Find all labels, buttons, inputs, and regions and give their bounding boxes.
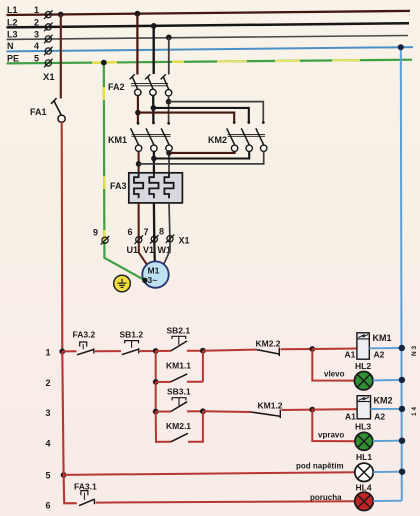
node N hl2 [399, 377, 405, 383]
node L1 tap [58, 12, 64, 18]
wire rung3 seg3 [282, 409, 313, 411]
terminal X1-2 [44, 23, 53, 32]
svg-text:5: 5 [34, 53, 39, 63]
contact KM2.2 [257, 348, 280, 357]
wire left bus rung5-rung6 [64, 475, 77, 503]
motor M1 [142, 261, 168, 287]
svg-text:vlevo: vlevo [324, 370, 345, 379]
wire L1 to KM2 pole1 [138, 113, 234, 122]
wire KM2 pole2 return [154, 151, 249, 158]
svg-text:A1: A1 [345, 350, 356, 360]
lamp HL3 branch [312, 410, 355, 442]
svg-text:KM1: KM1 [373, 333, 392, 343]
wire KM1.1 left lead [156, 381, 171, 383]
node L3 to FA2 [166, 35, 172, 41]
svg-text:HL4: HL4 [356, 483, 372, 493]
node rung1 left [59, 349, 65, 355]
svg-text:KM1.1: KM1.1 [166, 360, 191, 370]
wire U1 to motor [139, 243, 148, 266]
svg-text:porucha: porucha [310, 493, 342, 502]
terminal X1-5 [44, 59, 53, 68]
lamp HL1 [355, 463, 373, 481]
node N hl1 [399, 469, 405, 475]
wire SB3 left lead [156, 411, 171, 413]
svg-text:FA1: FA1 [30, 107, 47, 117]
svg-text:6: 6 [128, 227, 133, 237]
wire L2 bus [7, 23, 410, 27]
wire N bus [7, 47, 414, 51]
svg-text:A1: A1 [345, 411, 356, 421]
node rung5 left [61, 472, 67, 478]
svg-text:SB3.1: SB3.1 [167, 386, 191, 396]
svg-text:FA3: FA3 [110, 181, 127, 191]
svg-text:FA3.1: FA3.1 [74, 481, 97, 491]
svg-text:A2: A2 [374, 350, 385, 360]
svg-text:U1: U1 [127, 245, 139, 255]
node phase2 branch [151, 105, 157, 111]
wire V1 to motor [153, 242, 156, 261]
wire HL2 to N [373, 379, 402, 382]
terminal X1-6 [135, 235, 175, 244]
terminal X1-8 [166, 235, 175, 244]
svg-text:V1: V1 [143, 245, 154, 255]
node N hl3 [399, 438, 405, 444]
terminal X1-4 [44, 47, 53, 56]
breaker FA2 [130, 74, 172, 96]
wire L3 drop to FA2 [168, 37, 170, 74]
wire rung5 [64, 472, 355, 475]
wire KM1 pole1 out [138, 152, 140, 174]
svg-text:L3: L3 [7, 29, 18, 39]
terminal X1-1 [44, 10, 53, 67]
wire KM2 pole1 return [169, 151, 235, 153]
thermal contact FA3.2 [77, 342, 94, 355]
node L2 to FA2 [151, 23, 157, 29]
svg-text:3: 3 [46, 408, 51, 418]
wire FA2-2 out [152, 96, 154, 123]
wire L3 bus [7, 36, 409, 40]
wire L3 to KM2 pole3 [169, 102, 264, 122]
wire KM2 coil to N [371, 408, 402, 410]
wire FA3 out V [153, 203, 156, 243]
wire HL1 to N [373, 471, 402, 473]
wire KM1.1 right lead [187, 381, 203, 383]
wire FA1 to rung1 [61, 122, 64, 352]
svg-text:M1: M1 [148, 266, 160, 276]
svg-text:6: 6 [46, 501, 51, 511]
svg-text:X1: X1 [43, 72, 55, 83]
node N km2 [399, 406, 405, 412]
node motor PE [142, 278, 147, 283]
wire KM2.1 left lead [155, 441, 171, 443]
svg-text:3~: 3~ [148, 275, 158, 285]
wire L1 drop to FA2 [136, 14, 138, 75]
wire FA3 out W [169, 203, 170, 242]
node coil KM2 tap [309, 407, 315, 413]
svg-text:9: 9 [93, 228, 98, 238]
svg-text:HL1: HL1 [356, 452, 372, 462]
pushbutton SB2.1 [171, 336, 187, 351]
node SB2 right [200, 348, 206, 354]
svg-text:KM1: KM1 [108, 135, 127, 145]
node rung3 left [153, 409, 159, 415]
svg-text:SB1.2: SB1.2 [120, 329, 144, 339]
svg-text:4: 4 [34, 41, 39, 51]
svg-text:1 4: 1 4 [411, 407, 418, 416]
contact KM1.2 [251, 410, 280, 419]
svg-text:KM2.1: KM2.1 [166, 421, 191, 431]
wire rung1-rung3 tap [155, 382, 157, 412]
svg-text:3: 3 [34, 29, 39, 39]
svg-text:FA3.2: FA3.2 [73, 330, 96, 340]
wire SB2 left lead [156, 350, 171, 352]
wire SB2 right lead [187, 350, 203, 352]
svg-text:4: 4 [46, 439, 51, 449]
earth symbol [114, 275, 131, 292]
wire to coil KM2 [312, 408, 357, 411]
svg-text:8: 8 [159, 227, 164, 237]
wire L2 drop to FA2 [152, 26, 154, 74]
node SB3 right [200, 408, 206, 414]
wire left bus rung1-rung5 [62, 351, 63, 475]
svg-text:KM2: KM2 [208, 135, 227, 145]
wire PE bus [7, 60, 413, 64]
svg-text:vpravo: vpravo [318, 431, 344, 440]
wire L1 to FA1 [60, 15, 62, 99]
terminal X1-9 [101, 236, 110, 245]
svg-text:FA2: FA2 [108, 82, 125, 92]
thermal contact FA3.1 [79, 491, 94, 506]
wire KM1 pole2 out [153, 152, 155, 174]
thermal relay FA3 [129, 173, 183, 203]
svg-text:SB2.1: SB2.1 [167, 325, 191, 335]
wire HL3 to N [373, 440, 402, 442]
svg-text:KM2: KM2 [374, 396, 393, 406]
wire FA2-1 out [137, 96, 139, 123]
node N km1 [399, 345, 405, 351]
terminal X1-3 [44, 35, 53, 44]
contactor KM2 main contacts [227, 121, 267, 151]
wire to coil KM1 [312, 348, 357, 351]
wire PE drop [101, 60, 145, 281]
svg-text:HL2: HL2 [355, 361, 371, 371]
node phase3 branch [166, 99, 172, 105]
wire rung1 seg3 [140, 350, 156, 352]
pushbutton SB1.2 [122, 341, 139, 355]
wire L2 to KM2 pole2 [153, 108, 248, 122]
wire KM2.1 branch verticals [155, 412, 157, 442]
svg-text:L1: L1 [7, 5, 18, 15]
wire KM2.1 right lead [188, 441, 204, 443]
wire W1 to motor [164, 242, 170, 264]
svg-text:5: 5 [46, 471, 51, 481]
svg-text:KM1.2: KM1.2 [258, 401, 283, 411]
svg-text:A2: A2 [374, 411, 385, 421]
svg-text:1: 1 [34, 5, 39, 15]
coil KM2 [357, 396, 370, 419]
terminal X1-7 [150, 235, 159, 244]
svg-text:X1: X1 [179, 236, 190, 246]
svg-text:N: N [7, 41, 14, 51]
pushbutton SB3.1 [171, 398, 187, 412]
wire HL4 to N [373, 500, 402, 502]
contactor KM1 main contacts [131, 122, 173, 152]
wire SB3 right lead [187, 410, 203, 412]
wire rung1 seg4 [203, 350, 257, 351]
wire rung1 seg2 [95, 350, 121, 352]
node N top [398, 44, 404, 50]
node L1 to FA2 [135, 11, 141, 17]
node phase2 join [151, 156, 157, 162]
svg-text:pod napětím: pod napětím [296, 462, 344, 471]
wire rung6 [96, 501, 356, 502]
svg-text:KM2.2: KM2.2 [256, 338, 281, 348]
svg-text:L2: L2 [7, 17, 18, 27]
node coil KM1 tap [309, 346, 315, 352]
contact KM1.1 [171, 374, 188, 382]
coil KM1 [357, 333, 369, 359]
svg-text:N 3: N 3 [411, 346, 418, 357]
wire KM1 pole3 out [168, 152, 170, 174]
node phase1 join [136, 161, 142, 167]
wire N vertical [401, 47, 402, 500]
lamp HL2 [355, 372, 373, 390]
node phase1 branch [135, 110, 141, 116]
lamp HL4 [355, 492, 373, 510]
node SB2 left [153, 348, 159, 354]
wire KM1.1 branch verticals [155, 351, 157, 382]
wire KM2 pole3 return [139, 151, 264, 164]
wire FA3 out U [138, 203, 140, 243]
wire L1 bus [7, 11, 411, 15]
lamp HL2 branch [312, 349, 354, 381]
svg-text:1: 1 [46, 348, 51, 358]
lamp HL3 [355, 432, 373, 450]
svg-text:7: 7 [144, 227, 149, 237]
node KM1.1 left [153, 379, 159, 385]
wire rung1 seg1 [62, 350, 76, 352]
svg-text:2: 2 [34, 17, 39, 27]
wire FA2-3 out [168, 96, 170, 123]
contact KM2.1 [171, 433, 188, 442]
svg-text:2: 2 [46, 378, 51, 388]
node phase3 join [166, 150, 172, 156]
wire KM1 coil to N [369, 347, 401, 349]
wire rung1 seg5 [281, 348, 313, 350]
svg-text:HL3: HL3 [355, 422, 371, 432]
svg-text:PE: PE [7, 53, 19, 63]
wire rung3 seg2 [203, 410, 251, 413]
breaker FA1 [51, 98, 65, 122]
